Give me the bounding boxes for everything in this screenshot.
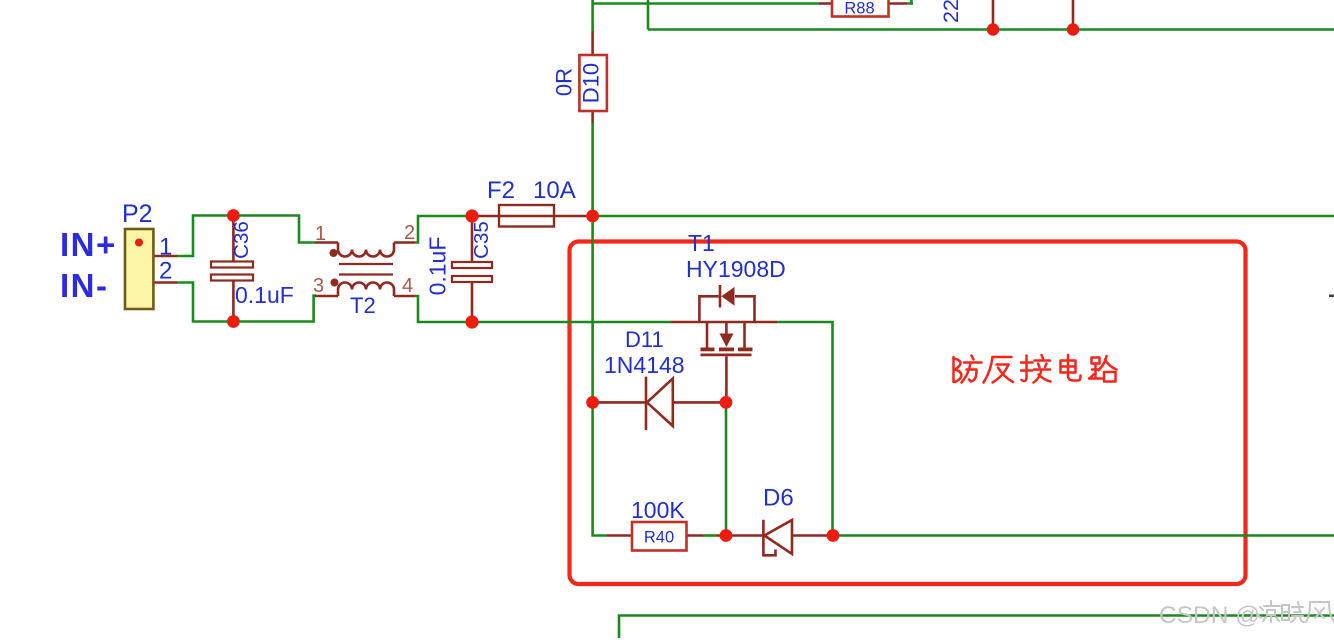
svg-text:4: 4 (402, 275, 413, 297)
svg-text:D6: D6 (763, 485, 794, 512)
svg-text:IN-: IN- (60, 267, 109, 304)
svg-text:P2: P2 (122, 200, 153, 228)
svg-text:C35: C35 (470, 221, 493, 259)
svg-text:T2: T2 (350, 293, 376, 318)
svg-text:C36: C36 (230, 221, 253, 259)
svg-text:T1: T1 (688, 230, 715, 256)
svg-text:R40: R40 (644, 529, 674, 547)
svg-text:HY1908D: HY1908D (686, 256, 786, 282)
svg-text:0.1uF: 0.1uF (235, 282, 294, 308)
svg-text:D10: D10 (578, 63, 603, 103)
svg-text:IN+: IN+ (60, 226, 117, 263)
svg-text:1: 1 (315, 223, 326, 245)
svg-text:2: 2 (404, 222, 415, 244)
svg-text:1N4148: 1N4148 (604, 352, 685, 378)
svg-text:0.1uF: 0.1uF (425, 237, 451, 296)
svg-text:10A: 10A (533, 177, 576, 204)
svg-text:D11: D11 (625, 327, 664, 352)
svg-text:1: 1 (159, 234, 172, 261)
svg-text:R88: R88 (844, 0, 874, 18)
svg-text:2: 2 (159, 258, 172, 285)
svg-text:F2: F2 (487, 177, 515, 204)
svg-text:0R: 0R (551, 68, 576, 96)
svg-text:100K: 100K (631, 497, 685, 523)
svg-text:3: 3 (313, 275, 324, 297)
svg-text:CSDN @: CSDN @ (1159, 602, 1260, 629)
svg-text:22: 22 (939, 0, 963, 23)
